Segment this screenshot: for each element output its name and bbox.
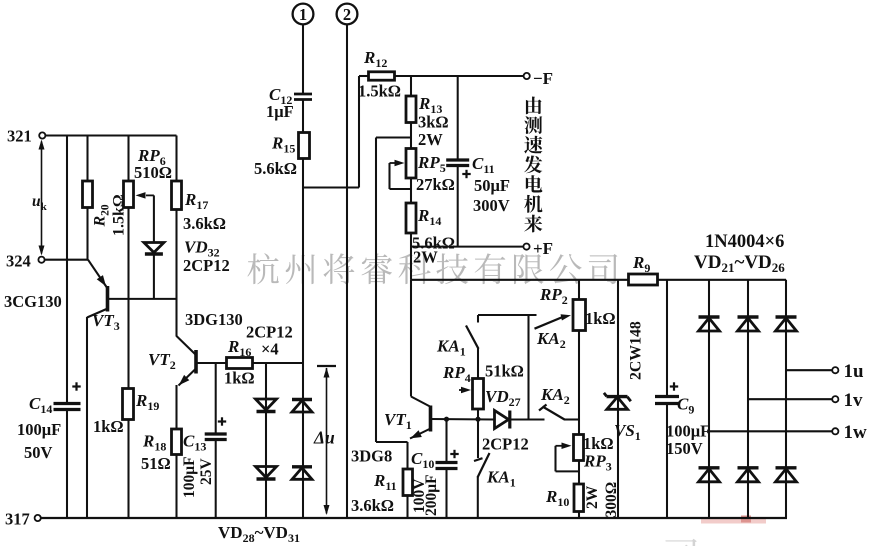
svg-text:2CP12: 2CP12 <box>482 435 529 454</box>
svg-text:321: 321 <box>7 127 32 146</box>
svg-text:100μF: 100μF <box>17 420 61 439</box>
svg-text:51kΩ: 51kΩ <box>485 362 524 381</box>
svg-text:1v: 1v <box>844 390 864 411</box>
svg-text:50μF: 50μF <box>474 176 510 195</box>
svg-text:324: 324 <box>6 252 31 271</box>
svg-text:3DG130: 3DG130 <box>185 310 243 329</box>
svg-text:VD28~VD31: VD28~VD31 <box>218 523 300 545</box>
svg-text:3.6kΩ: 3.6kΩ <box>183 214 226 233</box>
svg-text:1kΩ: 1kΩ <box>224 369 255 388</box>
svg-text:100μF: 100μF <box>181 456 198 498</box>
svg-text:25V: 25V <box>198 458 215 486</box>
svg-text:51Ω: 51Ω <box>141 454 171 473</box>
svg-text:3DG8: 3DG8 <box>351 447 392 466</box>
svg-text:2CP12: 2CP12 <box>183 256 230 275</box>
svg-text:×4: ×4 <box>261 340 279 359</box>
svg-text:27kΩ: 27kΩ <box>416 175 455 194</box>
svg-text:1μF: 1μF <box>266 102 294 121</box>
svg-text:1N4004×6: 1N4004×6 <box>705 232 784 252</box>
svg-text:510Ω: 510Ω <box>134 163 172 182</box>
svg-text:1w: 1w <box>844 422 868 443</box>
svg-text:3CG130: 3CG130 <box>4 292 62 311</box>
svg-text:−F: −F <box>533 69 553 88</box>
svg-text:1kΩ: 1kΩ <box>583 434 614 453</box>
svg-text:2W: 2W <box>413 248 438 267</box>
svg-text:1kΩ: 1kΩ <box>93 417 124 436</box>
svg-text:3.6kΩ: 3.6kΩ <box>351 496 394 515</box>
svg-text:100μF: 100μF <box>666 422 710 441</box>
svg-text:2CW148: 2CW148 <box>628 321 645 380</box>
svg-text:5.6kΩ: 5.6kΩ <box>254 159 297 178</box>
svg-text:+F: +F <box>533 239 553 258</box>
svg-text:300V: 300V <box>473 196 510 215</box>
svg-text:1.5kΩ: 1.5kΩ <box>358 82 401 101</box>
svg-text:Δu: Δu <box>313 428 335 448</box>
svg-text:1kΩ: 1kΩ <box>585 309 616 328</box>
svg-text:1.5kΩ: 1.5kΩ <box>111 194 128 236</box>
svg-text:VD21~VD26: VD21~VD26 <box>694 252 785 275</box>
svg-text:1: 1 <box>299 5 307 24</box>
svg-text:50V: 50V <box>24 443 53 462</box>
svg-text:150V: 150V <box>666 439 703 458</box>
svg-text:2: 2 <box>343 5 351 24</box>
svg-text:1u: 1u <box>844 361 865 382</box>
svg-text:2W: 2W <box>418 130 443 149</box>
svg-text:300Ω: 300Ω <box>603 482 620 518</box>
svg-text:2W: 2W <box>584 485 601 509</box>
svg-text:3kΩ: 3kΩ <box>418 113 449 132</box>
svg-text:200μF: 200μF <box>423 474 440 516</box>
svg-text:317: 317 <box>5 510 30 529</box>
